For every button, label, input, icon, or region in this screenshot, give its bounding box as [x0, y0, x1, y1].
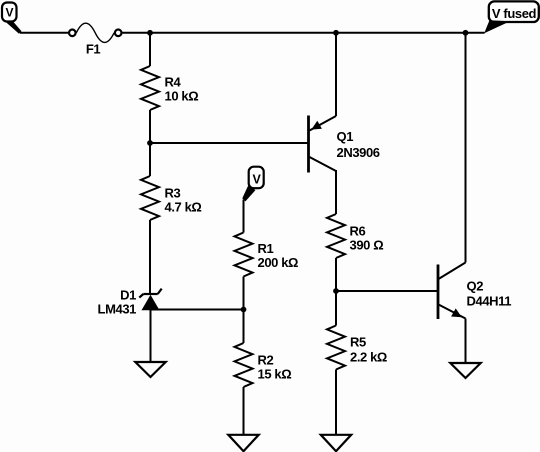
svg-text:V: V: [5, 5, 13, 19]
resistor R6: [327, 170, 383, 291]
ground below D1: [135, 362, 165, 377]
resistor R5: [327, 291, 387, 435]
svg-text:LM431: LM431: [98, 302, 137, 317]
node junction R1/R2: [241, 307, 247, 313]
wire fuse to top-right: [122, 32, 485, 34]
net label V fused (top-right flag): [484, 1, 539, 33]
svg-text:R2: R2: [258, 353, 274, 368]
diode D1 LM431: [98, 288, 162, 363]
svg-text:F1: F1: [86, 41, 101, 56]
svg-text:V fused: V fused: [492, 6, 537, 21]
wire top-left to fuse: [20, 32, 69, 34]
svg-text:2.2 kΩ: 2.2 kΩ: [350, 350, 387, 365]
svg-text:R3: R3: [165, 186, 181, 201]
resistor R2: [235, 310, 292, 436]
node junction R6/R5/Q2 base: [333, 288, 339, 294]
svg-text:390 Ω: 390 Ω: [350, 238, 384, 253]
svg-text:V: V: [253, 173, 262, 187]
resistor R4: [141, 33, 198, 143]
transistor Q1 2N3906: [309, 33, 380, 173]
net label V (top-left flag): [2, 3, 22, 34]
fuse F1: [69, 23, 121, 56]
svg-text:2N3906: 2N3906: [337, 145, 380, 160]
svg-text:15 kΩ: 15 kΩ: [258, 367, 292, 382]
wire Q1 base: [150, 142, 309, 144]
wire D1 to R1/R2 node: [151, 309, 244, 311]
ground below R2: [228, 435, 258, 451]
svg-text:R1: R1: [258, 241, 274, 256]
svg-text:Q1: Q1: [337, 129, 354, 144]
net label V (above R1): [242, 167, 263, 202]
svg-text:R5: R5: [350, 335, 366, 350]
svg-text:D44H11: D44H11: [467, 294, 512, 309]
wire Q2 base: [336, 290, 438, 292]
svg-text:R4: R4: [165, 75, 182, 90]
ground below Q2 emitter: [450, 363, 480, 378]
resistor R1: [235, 200, 299, 310]
resistor R3: [141, 143, 201, 294]
svg-text:4.7 kΩ: 4.7 kΩ: [165, 200, 202, 215]
node junction at R4 top: [147, 30, 153, 36]
svg-text:Q2: Q2: [467, 279, 484, 294]
svg-text:200 kΩ: 200 kΩ: [258, 255, 299, 270]
node junction at V fused: [463, 30, 469, 36]
svg-text:D1: D1: [120, 288, 136, 303]
transistor Q2 D44H11: [438, 33, 511, 363]
node junction at Q1 emitter top: [333, 30, 339, 36]
svg-text:10 kΩ: 10 kΩ: [165, 89, 199, 104]
ground below R5: [321, 435, 351, 451]
node junction R4/R3/Q1 base: [147, 140, 153, 146]
svg-text:R6: R6: [350, 224, 366, 239]
